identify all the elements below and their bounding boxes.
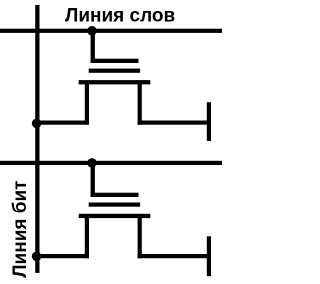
node: junction dot on word line 2 (gate of Q2) xyxy=(87,158,97,168)
transistor Q1 source lead xyxy=(85,82,89,125)
node: junction dot on word line 1 (gate of Q1) xyxy=(87,26,97,36)
transistor Q2 drain lead xyxy=(138,216,142,259)
terminal bar: Q2 drain contact xyxy=(207,236,211,276)
wire: bit line to Q1 source xyxy=(35,121,89,125)
wire: word line 2 xyxy=(0,161,222,165)
wire: bit line (vertical) xyxy=(35,5,39,273)
transistor Q2 control gate xyxy=(91,193,139,197)
transistor Q1 control gate xyxy=(91,59,139,63)
transistor Q2 channel xyxy=(79,214,151,218)
transistor Q1 floating gate xyxy=(89,69,140,73)
svg-text:Линия бит: Линия бит xyxy=(10,181,31,278)
transistor Q2 source lead xyxy=(85,216,89,259)
wire: Q1 drain to terminal xyxy=(138,121,209,125)
terminal bar: Q1 drain contact xyxy=(207,102,211,141)
wire: Q2 drain to terminal xyxy=(138,254,209,258)
transistor Q2 floating gate xyxy=(89,203,140,207)
svg-text:Линия слов: Линия слов xyxy=(65,5,175,26)
wire: gate connection Q1 xyxy=(91,31,95,63)
wire: bit line to Q2 source xyxy=(35,254,89,258)
wire: word line 1 xyxy=(0,29,222,33)
node: junction dot on bit line (source of Q2) xyxy=(32,252,42,262)
node: junction dot on bit line (source of Q1) xyxy=(32,119,42,129)
transistor Q1 channel xyxy=(79,80,151,84)
transistor Q1 drain lead xyxy=(138,82,142,125)
wire: gate connection Q2 xyxy=(91,163,95,197)
